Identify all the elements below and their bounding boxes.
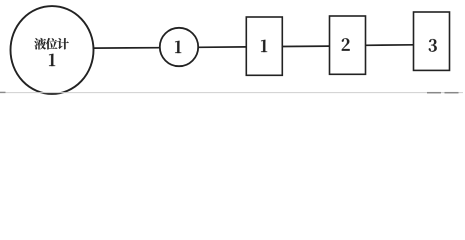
block 2 [330, 16, 366, 74]
label 1 (gauge) [49, 54, 55, 66]
baseline rule (scan artifact) [0, 92, 463, 94]
label 3 (block 3) [429, 39, 437, 52]
wire gauge to node 1 [94, 47, 160, 49]
label 1 (block 1) [261, 40, 267, 52]
label 2 (block 2) [342, 38, 350, 50]
label 1 (node) [175, 41, 181, 53]
baseline rule right dash b [445, 92, 459, 94]
node circle 1 [160, 28, 198, 66]
label 液位计 [34, 38, 69, 50]
wire block 2 to block 3 [366, 44, 414, 47]
liquid level gauge (circle instrument) [11, 6, 94, 94]
wire node 1 to block 1 [198, 46, 246, 48]
block 1 [246, 17, 282, 75]
baseline rule left dash [0, 91, 6, 93]
baseline rule right dash a [427, 92, 441, 94]
wire block 1 to block 2 [282, 45, 329, 47]
block 3 [414, 12, 450, 70]
